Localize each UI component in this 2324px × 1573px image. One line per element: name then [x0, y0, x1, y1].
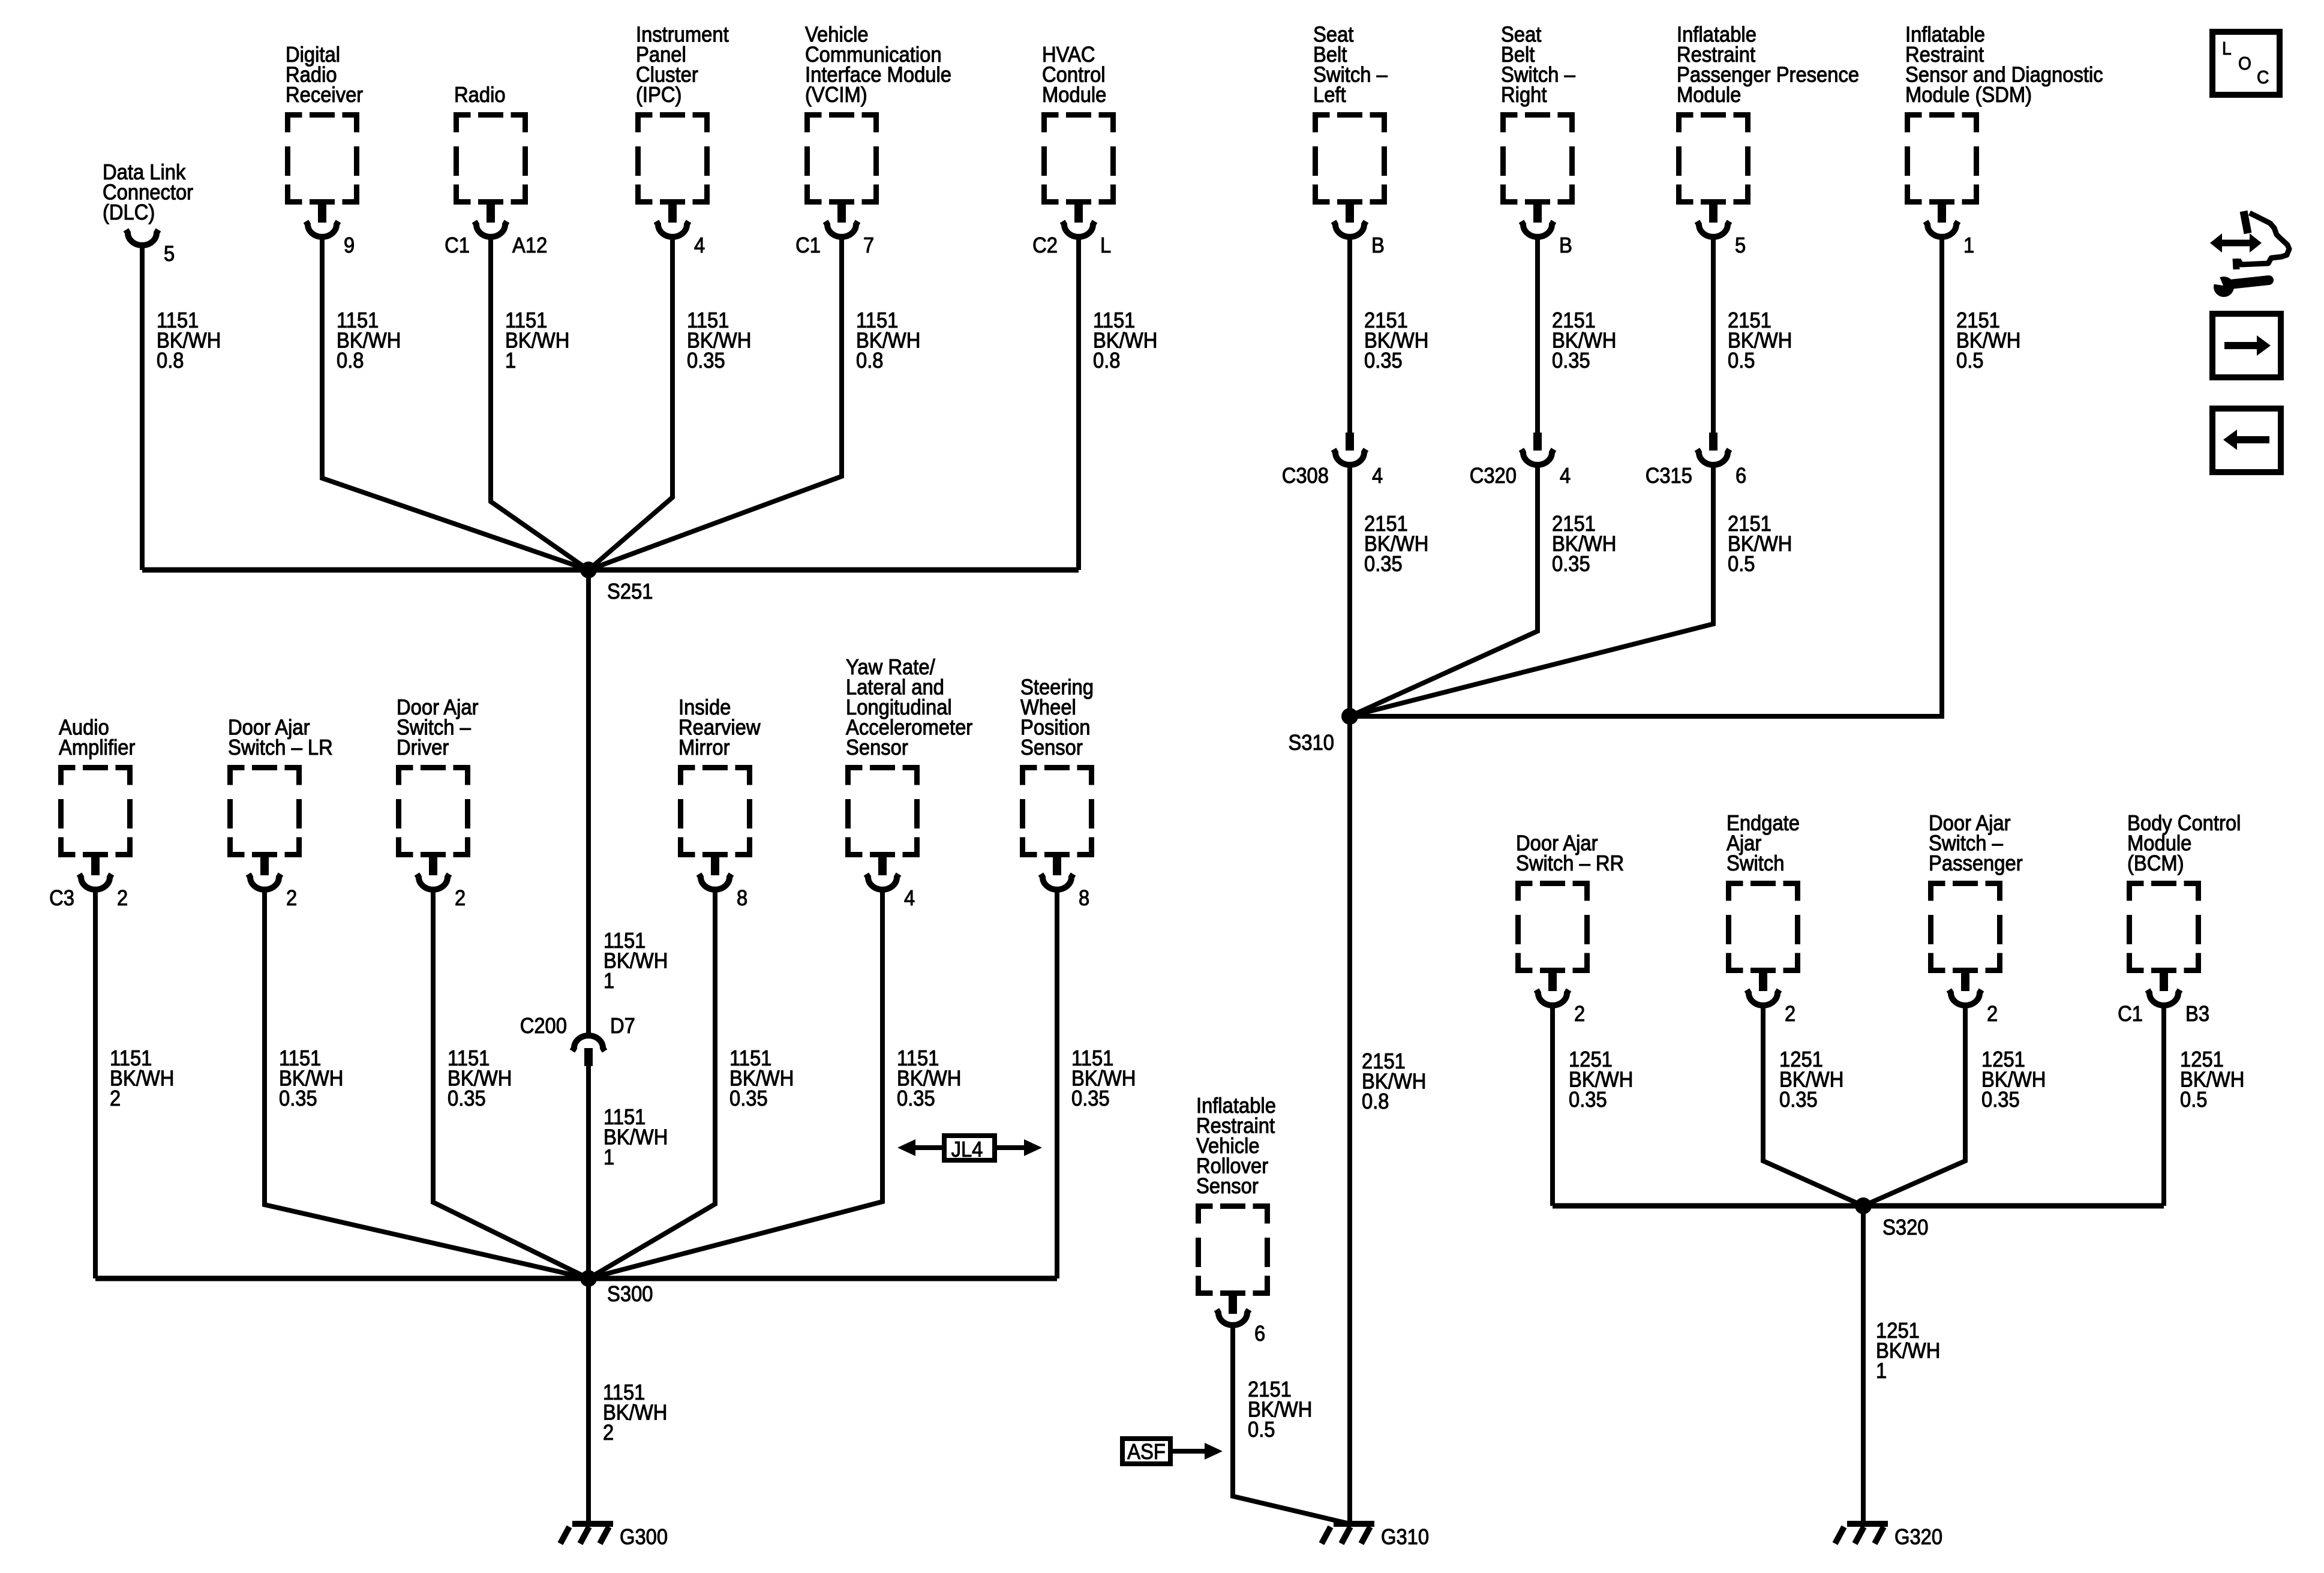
- svg-text:C315: C315: [1646, 463, 1692, 488]
- wire: S300 to G300 (1151 BK/WH 2): [588, 1278, 667, 1524]
- svg-text:Mirror: Mirror: [678, 735, 730, 760]
- component: Inflatable Restraint Vehicle Rollover Sensor: [1196, 1093, 1276, 1346]
- component: Digital Radio Receiver: [286, 42, 363, 257]
- wire: Seat Belt Switch Right pin B to C320 (2151 BK/WH 0.35): [1538, 238, 1616, 433]
- wire: C320 to S310 (2151 BK/WH 0.35): [1350, 466, 1616, 716]
- svg-text:L: L: [1100, 233, 1111, 257]
- component: Endgate Ajar Switch: [1727, 810, 1800, 1026]
- svg-text:0.35: 0.35: [448, 1086, 486, 1110]
- svg-text:(DLC): (DLC): [103, 200, 155, 224]
- wire: S251 down to C200 (1151 BK/WH 1): [588, 570, 668, 1036]
- label ASF with arrow: [1122, 1439, 1223, 1464]
- svg-text:C2: C2: [1032, 233, 1058, 257]
- wire: SDM pin 1 to S310 (2151 BK/WH 0.5): [1350, 238, 2020, 716]
- svg-text:1: 1: [1876, 1358, 1887, 1383]
- svg-text:0.5: 0.5: [1956, 348, 1984, 373]
- svg-text:Module: Module: [1042, 82, 1106, 107]
- svg-text:0.35: 0.35: [1779, 1087, 1818, 1112]
- svg-text:2: 2: [1785, 1001, 1795, 1026]
- wire: C308 to S310 (2151 BK/WH 0.35): [1350, 466, 1428, 716]
- component: Instrument Panel Cluster (IPC): [636, 22, 729, 258]
- svg-text:C200: C200: [520, 1013, 567, 1038]
- svg-text:1: 1: [505, 348, 516, 373]
- svg-text:Switch – RR: Switch – RR: [1516, 851, 1624, 875]
- svg-text:0.35: 0.35: [1364, 551, 1403, 576]
- wire: Door Ajar Switch Driver pin 2 to S300 (1151 BK/WH 0.35): [433, 891, 588, 1278]
- wire: BCM C1 pin B3 to S320 (1251 BK/WH 0.5): [2164, 1007, 2244, 1206]
- splice S300: [580, 1270, 653, 1306]
- svg-text:0.35: 0.35: [1981, 1087, 2020, 1112]
- wire: S310 to G310 (2151 BK/WH 0.8): [1350, 716, 1426, 1524]
- svg-text:Switch – LR: Switch – LR: [228, 735, 333, 760]
- wire: C315 to S310 (2151 BK/WH 0.5): [1350, 466, 1792, 716]
- svg-text:2: 2: [603, 1420, 614, 1445]
- svg-text:(IPC): (IPC): [636, 82, 681, 107]
- svg-text:0.35: 0.35: [897, 1086, 935, 1110]
- svg-text:0.8: 0.8: [337, 348, 364, 373]
- svg-text:2: 2: [455, 885, 466, 910]
- svg-text:Sensor: Sensor: [846, 735, 908, 760]
- svg-text:0.5: 0.5: [1728, 551, 1755, 576]
- svg-text:5: 5: [1735, 233, 1746, 257]
- svg-text:0.35: 0.35: [1569, 1087, 1607, 1112]
- svg-text:C3: C3: [49, 885, 74, 910]
- svg-text:Receiver: Receiver: [286, 82, 363, 107]
- svg-text:C: C: [2257, 67, 2269, 88]
- svg-text:4: 4: [1372, 463, 1383, 488]
- wire: IPC pin 4 to S251 (1151 BK/WH 0.35): [588, 238, 751, 570]
- svg-text:C1: C1: [795, 233, 821, 257]
- svg-text:O: O: [2238, 53, 2251, 74]
- wire: Door Ajar Switch RR pin 2 to S320 (1251 BK/WH 0.35): [1553, 1007, 1633, 1206]
- wire: Endgate Ajar Switch pin 2 to S320 (1251 BK/WH 0.35): [1763, 1007, 1863, 1206]
- wire: S320 to G320 (1251 BK/WH 1): [1863, 1206, 1940, 1524]
- svg-text:9: 9: [344, 233, 355, 257]
- wire: Rollover Sensor pin 6 to G310 (2151 BK/WH 0.5): [1233, 1326, 1350, 1524]
- svg-text:6: 6: [1254, 1321, 1265, 1346]
- connector C320 pin 4: [1470, 433, 1571, 488]
- ground G320: [1835, 1524, 1942, 1549]
- svg-text:0.35: 0.35: [1552, 551, 1590, 576]
- svg-text:2: 2: [110, 1086, 121, 1110]
- icon: harness repair (double arrow, connector, wrench): [2200, 211, 2289, 297]
- svg-text:G300: G300: [620, 1524, 668, 1549]
- svg-text:0.8: 0.8: [1093, 348, 1121, 373]
- icon: arrow left box: [2212, 409, 2281, 472]
- svg-text:0.35: 0.35: [729, 1086, 768, 1110]
- svg-text:A12: A12: [512, 233, 547, 257]
- svg-text:S300: S300: [607, 1281, 653, 1306]
- svg-text:0.5: 0.5: [1728, 348, 1755, 373]
- component: Body Control Module (BCM): [2118, 810, 2241, 1026]
- icon: LOC reference box: [2212, 32, 2280, 95]
- svg-text:1: 1: [603, 968, 614, 993]
- wire: Inside Rearview Mirror pin 8 to S300 (1151 BK/WH 0.35): [588, 891, 794, 1278]
- svg-text:1: 1: [603, 1145, 614, 1169]
- label JL4 with arrows: [897, 1136, 1042, 1161]
- wire: Yaw Rate Sensor pin 4 to S300 (1151 BK/WH 0.35): [588, 891, 961, 1278]
- svg-text:4: 4: [1560, 463, 1571, 488]
- svg-text:4: 4: [694, 233, 705, 257]
- svg-text:(VCIM): (VCIM): [805, 82, 867, 107]
- svg-text:S251: S251: [607, 579, 653, 604]
- connector C200 pin D7: [520, 1013, 635, 1066]
- component: Inflatable Restraint Passenger Presence Module: [1677, 22, 1859, 258]
- ground G310: [1322, 1524, 1429, 1549]
- svg-text:(BCM): (BCM): [2127, 851, 2184, 875]
- svg-text:G310: G310: [1381, 1524, 1429, 1549]
- svg-text:Radio: Radio: [454, 82, 506, 107]
- wire: DLC pin 5 to S251 (1151 BK/WH 0.8): [142, 247, 221, 570]
- svg-text:6: 6: [1736, 463, 1746, 488]
- svg-text:0.35: 0.35: [279, 1086, 317, 1110]
- svg-text:Sensor: Sensor: [1196, 1173, 1259, 1198]
- wire: S251 horizontal bus: [142, 568, 1079, 573]
- svg-text:C1: C1: [445, 233, 470, 257]
- svg-text:4: 4: [904, 885, 915, 910]
- svg-text:B: B: [1559, 233, 1572, 257]
- svg-text:Right: Right: [1501, 82, 1547, 107]
- svg-text:2: 2: [1987, 1001, 1998, 1026]
- svg-text:2: 2: [286, 885, 297, 910]
- wire: VCIM C1 pin 7 to S251 (1151 BK/WH 0.8): [588, 238, 920, 570]
- icon: arrow right box: [2212, 314, 2281, 377]
- svg-text:0.8: 0.8: [856, 348, 884, 373]
- svg-text:8: 8: [1079, 885, 1089, 910]
- component: Door Ajar Switch - Passenger: [1929, 810, 2023, 1026]
- svg-text:8: 8: [737, 885, 747, 910]
- svg-text:G320: G320: [1894, 1524, 1942, 1549]
- svg-text:D7: D7: [610, 1013, 635, 1038]
- svg-text:C1: C1: [2118, 1001, 2143, 1026]
- svg-text:JL4: JL4: [951, 1137, 983, 1161]
- wire: Door Ajar Switch LR pin 2 to S300 (1151 BK/WH 0.35): [265, 891, 588, 1278]
- wire: Digital Radio Receiver pin 9 to S251 (1151 BK/WH 0.8): [322, 238, 588, 570]
- svg-text:0.35: 0.35: [1552, 348, 1590, 373]
- splice S320: [1855, 1197, 1929, 1239]
- svg-text:Module (SDM): Module (SDM): [1905, 82, 2032, 107]
- wire: Steering Wheel Position Sensor pin 8 to S300 (1151 BK/WH 0.35): [1057, 891, 1136, 1278]
- svg-text:0.5: 0.5: [2180, 1087, 2208, 1112]
- svg-text:ASF: ASF: [1127, 1439, 1166, 1464]
- svg-text:1: 1: [1963, 233, 1974, 257]
- component: Radio: [445, 82, 547, 257]
- wire: Radio C1 pin A12 to S251 (1151 BK/WH 1): [491, 238, 588, 570]
- svg-text:Driver: Driver: [397, 735, 449, 760]
- svg-text:0.35: 0.35: [687, 348, 725, 373]
- svg-text:2: 2: [1574, 1001, 1585, 1026]
- wire: Door Ajar Switch Passenger pin 2 to S320 (1251 BK/WH 0.35): [1863, 1007, 2046, 1206]
- svg-text:C308: C308: [1282, 463, 1329, 488]
- component: HVAC Control Module: [1032, 42, 1113, 257]
- component: Vehicle Communication Interface Module (VCIM): [795, 22, 951, 258]
- wire: Seat Belt Switch Left pin B to C308 (2151 BK/WH 0.35): [1350, 238, 1428, 433]
- svg-text:L: L: [2222, 38, 2232, 59]
- svg-text:Sensor: Sensor: [1020, 735, 1083, 760]
- svg-text:7: 7: [863, 233, 874, 257]
- svg-text:B: B: [1371, 233, 1385, 257]
- svg-text:Switch: Switch: [1727, 851, 1785, 875]
- svg-text:5: 5: [164, 241, 175, 266]
- component: Door Ajar Switch - LR: [228, 715, 333, 911]
- wire: S300 horizontal bus: [95, 1276, 1057, 1281]
- svg-text:Module: Module: [1677, 82, 1741, 107]
- component: Inflatable Restraint Sensor and Diagnostic Module (SDM): [1905, 22, 2103, 258]
- wire: S320 horizontal bus: [1553, 1203, 2164, 1209]
- svg-text:Passenger: Passenger: [1929, 851, 2023, 875]
- wire: C200 to S300 (1151 BK/WH 1): [588, 1066, 668, 1278]
- component: Yaw Rate/Lateral and Longitudinal Accelerometer Sensor: [846, 655, 972, 910]
- connector: Data Link Connector (DLC): [103, 160, 193, 266]
- component: Inside Rearview Mirror: [678, 695, 761, 910]
- component: Door Ajar Switch - RR: [1516, 831, 1624, 1026]
- svg-text:0.5: 0.5: [1248, 1417, 1275, 1442]
- svg-text:Amplifier: Amplifier: [59, 735, 135, 760]
- svg-text:0.8: 0.8: [1362, 1089, 1389, 1113]
- wire: Audio Amplifier C3 pin 2 to S300 (1151 BK/WH 2): [95, 891, 174, 1278]
- splice S251: [580, 562, 653, 604]
- svg-text:0.35: 0.35: [1364, 348, 1403, 373]
- svg-text:0.8: 0.8: [157, 348, 184, 373]
- ground G300: [560, 1524, 668, 1549]
- component: Seat Belt Switch - Right: [1501, 22, 1575, 258]
- connector C308 pin 4: [1282, 433, 1383, 488]
- splice S310: [1289, 708, 1359, 755]
- component: Door Ajar Switch - Driver: [397, 695, 479, 910]
- wire: HVAC Control Module C2 pin L to S251 (1151 BK/WH 0.8): [1079, 238, 1157, 570]
- component: Steering Wheel Position Sensor: [1020, 675, 1094, 911]
- connector C315 pin 6: [1646, 433, 1747, 488]
- wire: Passenger Presence Module pin 5 to C315 (2151 BK/WH 0.5): [1713, 238, 1792, 433]
- svg-text:S310: S310: [1289, 730, 1335, 755]
- svg-text:S320: S320: [1882, 1215, 1929, 1239]
- svg-text:C320: C320: [1470, 463, 1517, 488]
- component: Seat Belt Switch - Left: [1313, 22, 1388, 258]
- svg-text:B3: B3: [2185, 1001, 2209, 1026]
- svg-text:2: 2: [117, 885, 128, 910]
- svg-text:Left: Left: [1313, 82, 1346, 107]
- component: Audio Amplifier: [49, 715, 135, 911]
- svg-text:0.35: 0.35: [1071, 1086, 1110, 1110]
